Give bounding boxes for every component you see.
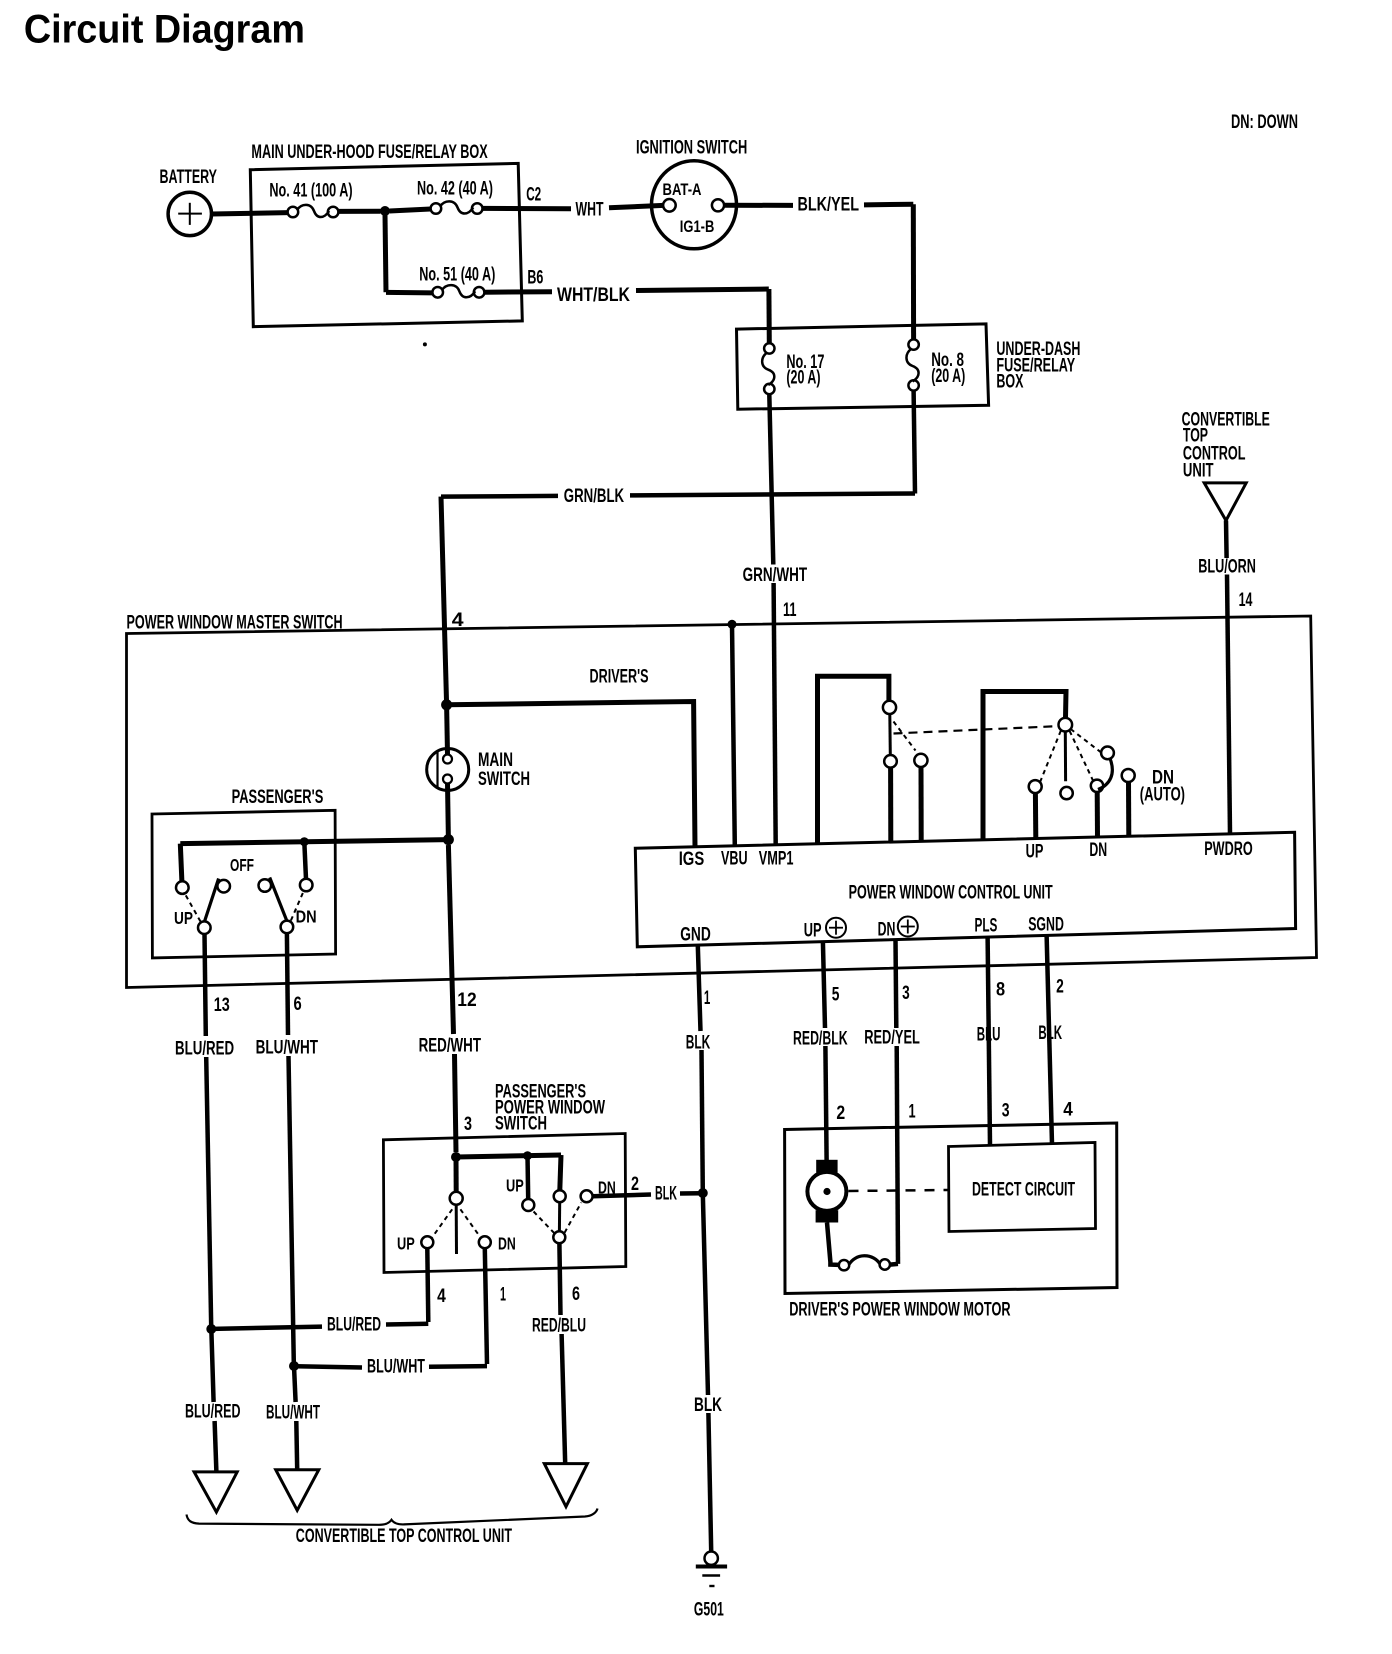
wire DN contact to unit	[1095, 792, 1100, 837]
gang dashed link	[894, 726, 1062, 734]
driver's switch UP contact	[1029, 780, 1042, 793]
wire BLU/RED to junction	[214, 1327, 323, 1329]
battery symbol	[168, 192, 211, 235]
passenger left lever dashed	[185, 894, 201, 922]
wire col12 upper	[448, 845, 453, 1034]
svg-text:13: 13	[214, 995, 230, 1016]
passenger contact UP-feed circle	[176, 881, 189, 894]
main switch circle	[427, 749, 469, 791]
svg-text:2: 2	[836, 1103, 845, 1124]
svg-text:DRIVER'S POWER WINDOW MOTOR: DRIVER'S POWER WINDOW MOTOR	[789, 1300, 1011, 1321]
svg-text:4: 4	[437, 1286, 446, 1307]
driver's switch AUTO contact	[1122, 769, 1135, 782]
dashed left lever to UP	[432, 1209, 452, 1237]
svg-text:UP: UP	[804, 921, 822, 942]
svg-text:No. 42 (40 A): No. 42 (40 A)	[417, 179, 493, 200]
svg-text:RED/BLU: RED/BLU	[532, 1316, 586, 1337]
AUTO spring arc	[1098, 759, 1112, 789]
convertible top control unit connector triangle	[1204, 483, 1246, 521]
svg-text:GND: GND	[680, 925, 711, 946]
wire GND column upper	[698, 946, 701, 1031]
wire AUTO contact to unit	[1126, 782, 1131, 837]
wire GRN/BLK right segment	[630, 494, 915, 496]
wire to fuse No.51	[386, 290, 432, 296]
main switch chord	[436, 752, 438, 788]
driver's switch right lever	[1064, 731, 1067, 781]
svg-text:CONVERTIBLE TOP CONTROL UNIT: CONVERTIBLE TOP CONTROL UNIT	[296, 1526, 512, 1547]
wire right lever down pin6	[559, 1243, 560, 1315]
dashed right lever to UP	[533, 1211, 554, 1233]
svg-text:C2: C2	[526, 185, 541, 206]
wire DN pin column lower	[897, 1046, 898, 1264]
wire bus to left pivot	[454, 1157, 459, 1192]
ground bar 1	[696, 1565, 727, 1569]
wire pin4 down	[427, 1248, 428, 1322]
wire BLU/ORN upper segment	[1224, 521, 1229, 559]
svg-text:BLU/WHT: BLU/WHT	[256, 1038, 319, 1059]
svg-text:11: 11	[783, 600, 797, 621]
svg-text:Circuit Diagram: Circuit Diagram	[24, 8, 305, 52]
wire passenger bus	[180, 840, 448, 844]
svg-text:MAIN UNDER-HOOD FUSE/RELAY BOX: MAIN UNDER-HOOD FUSE/RELAY BOX	[251, 142, 488, 163]
svg-text:POWER WINDOW CONTROL UNIT: POWER WINDOW CONTROL UNIT	[849, 883, 1053, 904]
svg-text:3: 3	[464, 1114, 472, 1135]
svg-text:B6: B6	[527, 268, 543, 289]
passenger contact DN-feed circle	[300, 879, 313, 892]
svg-text:BLK/YEL: BLK/YEL	[798, 195, 860, 216]
svg-text:1: 1	[704, 988, 711, 1009]
svg-text:12: 12	[457, 990, 476, 1011]
wire motor lower right	[890, 1262, 898, 1267]
passenger's switch box	[152, 810, 336, 958]
passenger left common circle	[198, 921, 211, 934]
svg-text:5: 5	[832, 985, 840, 1006]
ground bar 3	[709, 1585, 714, 1587]
wire DRIVER'S horizontal	[447, 702, 695, 847]
power window master switch box	[127, 616, 1317, 988]
wire DN pin column upper	[893, 940, 898, 1028]
junction dot bus UP drop	[523, 1151, 532, 1160]
svg-text:MAIN: MAIN	[478, 750, 513, 771]
svg-text:1: 1	[500, 1285, 506, 1306]
switch DN contact	[581, 1190, 593, 1202]
wire col13 to triangle	[215, 1421, 217, 1472]
driver's switch left dashed	[894, 722, 916, 751]
junction dot DN drop	[300, 837, 309, 846]
fuse No.17 (20 A)	[764, 343, 774, 353]
wire pin1 left	[429, 1364, 487, 1369]
wire BLK/YEL down to fuse No.8	[911, 204, 916, 341]
wire col6 upper	[287, 933, 288, 1035]
svg-text:DETECT CIRCUIT: DETECT CIRCUIT	[972, 1180, 1075, 1201]
dashed lever to DN	[1070, 731, 1093, 780]
svg-text:SWITCH: SWITCH	[495, 1114, 547, 1135]
svg-text:BLU/WHT: BLU/WHT	[266, 1403, 320, 1424]
motor brush upper	[816, 1160, 837, 1173]
convertible top control unit brace	[187, 1509, 598, 1525]
svg-text:DRIVER'S: DRIVER'S	[590, 667, 649, 688]
wire motor lower left	[827, 1223, 839, 1265]
svg-text:WHT: WHT	[576, 200, 604, 221]
svg-text:BAT-A: BAT-A	[663, 181, 702, 199]
wire BLU/WHT to junction	[296, 1366, 362, 1367]
wire GRN/BLK left segment	[441, 494, 558, 499]
switch right top contact	[554, 1190, 566, 1202]
driver's switch left loop	[818, 676, 889, 843]
motor commutator left circle	[839, 1260, 849, 1270]
wire fuse No.8 down	[914, 391, 915, 494]
detect circuit box	[949, 1143, 1096, 1232]
svg-text:PASSENGER'S: PASSENGER'S	[232, 787, 324, 808]
wire SGND column	[1047, 935, 1052, 1144]
under-dash fuse/relay box	[737, 324, 989, 409]
wire col13 upper	[205, 934, 206, 1036]
wire pin4 column	[441, 497, 447, 705]
svg-text:RED/WHT: RED/WHT	[419, 1036, 482, 1057]
svg-text:DN: DOWN: DN: DOWN	[1231, 112, 1298, 133]
wire BLK/YEL right segment	[864, 202, 913, 208]
wire DN to BLK	[593, 1195, 651, 1197]
driver's switch left second contact	[914, 754, 927, 767]
svg-text:PLS: PLS	[975, 916, 998, 937]
wire WHT to ignition switch	[609, 205, 664, 207]
svg-text:BLU: BLU	[977, 1025, 1001, 1046]
wire left second contact to unit	[919, 767, 924, 841]
wire PLS column	[988, 936, 990, 1145]
svg-text:BLU/RED: BLU/RED	[327, 1315, 381, 1336]
junction dot BLK	[698, 1188, 708, 1198]
passenger right lever dashed	[291, 892, 304, 921]
junction dot driver's branch	[441, 699, 452, 710]
wire GND column mid	[702, 1050, 703, 1193]
driver's switch right loop	[983, 692, 1066, 840]
wire main column lower	[445, 784, 451, 840]
driver's power window motor box	[785, 1123, 1117, 1294]
passenger right lever	[270, 878, 287, 922]
switch left pivot circle	[450, 1192, 463, 1205]
svg-text:No. 51 (40 A): No. 51 (40 A)	[419, 265, 495, 286]
UP circle-plus	[826, 918, 846, 938]
motor commutator arc	[849, 1256, 880, 1264]
svg-text:BLU/RED: BLU/RED	[175, 1039, 234, 1060]
driver's switch left lever circle	[884, 755, 897, 768]
wire pin6 to triangle	[562, 1334, 566, 1464]
fuse No.51 (40 A)	[432, 287, 443, 298]
convertible top connector triangle right	[544, 1464, 587, 1507]
svg-text:BATTERY: BATTERY	[160, 167, 218, 188]
svg-text:WHT/BLK: WHT/BLK	[557, 285, 630, 306]
wire fuse41 to junction	[338, 209, 380, 214]
ignition terminal circle BAT-A	[663, 199, 676, 212]
svg-text:No. 41 (100 A): No. 41 (100 A)	[269, 181, 352, 202]
junction dot BLU/WHT	[289, 1361, 299, 1371]
junction dot BLU/RED	[206, 1324, 216, 1334]
wire junction to fuse42	[390, 209, 431, 211]
driver's switch right pivot circle	[1059, 718, 1073, 732]
svg-text:IGS: IGS	[679, 849, 705, 870]
svg-text:DN: DN	[296, 907, 317, 927]
DN circle-plus	[898, 917, 918, 937]
driver's switch left lever	[888, 714, 892, 755]
wire BLU/ORN down to PWDRO	[1227, 575, 1230, 834]
motor center dot	[823, 1188, 830, 1195]
switch right lever	[558, 1202, 561, 1231]
dashed left lever to DN	[460, 1209, 480, 1237]
wire ignition to BLK/YEL	[724, 203, 793, 208]
dashed lever to AUTO	[1071, 729, 1103, 754]
motor commutator right circle	[880, 1259, 890, 1269]
svg-text:2: 2	[1056, 977, 1064, 998]
motor brush lower	[816, 1210, 839, 1222]
wire col6 to triangle	[294, 1421, 299, 1470]
svg-text:GRN/WHT: GRN/WHT	[743, 565, 808, 586]
svg-text:SWITCH: SWITCH	[478, 769, 530, 790]
svg-text:VBU: VBU	[721, 849, 748, 870]
svg-text:2: 2	[631, 1174, 639, 1195]
svg-text:BLK: BLK	[686, 1032, 711, 1053]
passenger right common circle	[281, 921, 294, 934]
dashed right lever to DN	[565, 1203, 582, 1233]
driver's switch DN contact	[1091, 780, 1103, 792]
wire bus right drop	[560, 1155, 561, 1190]
dashed motor to detect circuit	[849, 1190, 949, 1191]
svg-text:UP: UP	[397, 1234, 415, 1254]
convertible top connector triangle left	[194, 1472, 237, 1512]
AUTO spring arc circle	[1101, 747, 1114, 760]
wire switch bus	[456, 1155, 561, 1157]
svg-text:IGNITION SWITCH: IGNITION SWITCH	[636, 138, 747, 159]
wire main column upper	[444, 705, 450, 755]
ignition switch circle	[652, 161, 737, 249]
svg-text:BLK: BLK	[694, 1395, 722, 1416]
wire junction down to fuse51	[385, 214, 386, 292]
fuse No.8 (20 A)	[908, 339, 918, 349]
svg-text:1: 1	[909, 1102, 916, 1123]
switch left DN contact	[479, 1236, 491, 1248]
main switch terminal lower	[443, 775, 452, 784]
svg-text:BLU/ORN: BLU/ORN	[1198, 557, 1256, 578]
convertible top connector triangle middle	[276, 1470, 319, 1511]
power window control unit box	[635, 832, 1295, 947]
motor circle	[807, 1172, 846, 1211]
switch left UP contact	[421, 1236, 433, 1248]
dashed lever to UP	[1040, 731, 1061, 782]
junction dot VBU tap	[728, 620, 737, 629]
wire fuse42 to C2 exit	[483, 206, 572, 211]
svg-text:VMP1: VMP1	[759, 848, 794, 869]
svg-text:UP: UP	[1026, 842, 1044, 863]
svg-text:BLK: BLK	[655, 1184, 677, 1205]
svg-text:UP: UP	[174, 908, 193, 928]
wire GND column lower	[703, 1193, 708, 1395]
svg-text:DN: DN	[498, 1234, 516, 1254]
svg-text:BLU/RED: BLU/RED	[185, 1402, 241, 1423]
svg-text:3: 3	[902, 983, 910, 1004]
svg-text:BLU/WHT: BLU/WHT	[367, 1357, 425, 1378]
wire GRN/WHT lower segment to VMP1	[774, 583, 776, 846]
wire GND column to ground	[708, 1413, 711, 1552]
svg-text:6: 6	[572, 1284, 580, 1305]
speck below box	[423, 342, 427, 346]
svg-text:8: 8	[996, 980, 1005, 1001]
svg-text:(AUTO): (AUTO)	[1140, 785, 1185, 806]
junction dot switch bus	[451, 1152, 461, 1162]
svg-text:4: 4	[1063, 1100, 1073, 1121]
driver's switch left pivot circle	[883, 701, 896, 714]
wire UP pin column lower	[825, 1046, 826, 1160]
wire fuse51 to B6 exit	[484, 289, 552, 295]
wire pin4 left	[386, 1322, 428, 1327]
switch right lever circle	[553, 1231, 565, 1243]
passenger's power window switch box	[383, 1134, 625, 1273]
svg-text:SGND: SGND	[1028, 915, 1064, 936]
svg-text:BOX: BOX	[996, 372, 1023, 393]
svg-text:14: 14	[1239, 590, 1253, 611]
wire passenger DN drop	[304, 842, 306, 879]
wire battery to fuse No.41	[212, 213, 289, 214]
wire passenger bus left drop	[180, 844, 182, 882]
svg-text:RED/BLK: RED/BLK	[793, 1029, 848, 1050]
svg-text:IG1-B: IG1-B	[680, 218, 715, 236]
wire col6 mid	[289, 1056, 294, 1364]
fuse No.41 (100 A)	[288, 207, 299, 218]
main under-hood fuse/relay box	[250, 163, 522, 326]
wire VBU column	[732, 624, 735, 846]
svg-text:UP: UP	[506, 1176, 524, 1196]
wire col6 lower	[294, 1369, 296, 1403]
wire UP contact to unit	[1033, 793, 1038, 839]
driver's switch right lever circle	[1060, 787, 1072, 799]
wire col13 mid	[206, 1057, 211, 1327]
passenger left lever	[205, 879, 219, 922]
svg-text:BLK: BLK	[1038, 1023, 1062, 1044]
wire bus UP drop	[525, 1156, 530, 1199]
junction dot at fuse42 branch	[380, 206, 390, 216]
svg-text:UNIT: UNIT	[1183, 461, 1214, 482]
ground bar 2	[702, 1574, 720, 1576]
svg-text:3: 3	[1002, 1101, 1010, 1122]
svg-text:PWDRO: PWDRO	[1204, 839, 1253, 860]
main switch terminal upper	[443, 755, 452, 764]
svg-text:GRN/BLK: GRN/BLK	[564, 486, 624, 507]
svg-text:OFF: OFF	[230, 855, 254, 875]
wire GRN/WHT upper segment	[769, 394, 773, 565]
passenger OFF contact left	[217, 880, 230, 893]
wire left lever to unit	[888, 768, 893, 843]
svg-text:(20 A): (20 A)	[786, 368, 820, 389]
ground circle	[705, 1552, 718, 1565]
wire pin1 down	[485, 1248, 487, 1364]
passenger OFF contact right	[259, 879, 272, 892]
svg-text:6: 6	[294, 994, 302, 1015]
svg-text:DN: DN	[1089, 840, 1107, 861]
wire col12 lower	[455, 1054, 457, 1152]
wire WHT/BLK horizontal	[636, 289, 769, 291]
svg-text:DN: DN	[878, 920, 896, 941]
wire WHT/BLK down to fuse No.17	[766, 289, 771, 343]
junction dot passenger bus	[443, 834, 454, 845]
svg-text:(20 A): (20 A)	[931, 366, 965, 387]
switch left lever	[455, 1205, 458, 1254]
wire col13 lower	[211, 1332, 213, 1403]
svg-text:RED/YEL: RED/YEL	[864, 1028, 920, 1049]
svg-text:G501: G501	[694, 1600, 724, 1621]
switch UP upper contact	[522, 1199, 534, 1211]
wire UP pin column upper	[823, 941, 825, 1028]
fuse No.42 (40 A)	[431, 203, 442, 214]
ignition terminal circle IG1-B side	[712, 199, 724, 211]
wire BLK to junction	[680, 1191, 701, 1196]
